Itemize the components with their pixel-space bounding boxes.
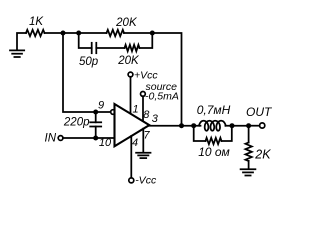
wire: feedback node C to output node <box>152 33 181 126</box>
ground (op-amp pin 7) <box>136 153 150 158</box>
node G junction (L/R rejoin) <box>230 123 235 128</box>
node C junction <box>150 31 155 36</box>
svg-text:0,7мН: 0,7мН <box>197 103 231 117</box>
op-amp U1 <box>115 104 150 146</box>
svg-text:4: 4 <box>132 137 138 149</box>
resistor 10 ohm <box>206 138 222 144</box>
svg-text:20K: 20K <box>117 55 140 67</box>
output node junction (feedback) <box>179 123 184 128</box>
svg-text:20K: 20K <box>115 17 138 29</box>
svg-text:-0,5mA: -0,5mA <box>145 90 179 102</box>
wire: source to pin 8 <box>142 96 144 120</box>
ground (top-left) <box>10 50 24 57</box>
svg-text:3: 3 <box>152 113 159 125</box>
svg-text:1: 1 <box>132 104 138 116</box>
wire: node H to OUT <box>249 125 260 127</box>
wire: ground stem to 1K left <box>17 33 26 50</box>
svg-text:10 ом: 10 ом <box>198 145 230 159</box>
capacitor 220p <box>90 112 101 138</box>
terminal +Vcc <box>128 72 133 77</box>
wire: node H down to 2K <box>248 126 250 143</box>
svg-text:7: 7 <box>144 130 151 142</box>
inductor 0.7mH <box>199 121 226 131</box>
node D junction (220p top) <box>93 110 98 115</box>
node B junction <box>76 31 81 36</box>
node A junction <box>61 31 66 36</box>
wire: 2K to ground <box>248 161 250 169</box>
svg-text:+Vcc: +Vcc <box>134 69 158 81</box>
svg-text:8: 8 <box>143 109 150 121</box>
resistor 1K <box>26 30 45 36</box>
wire: 50p to 20K bottom <box>96 47 124 49</box>
wire: 10 ohm branch <box>194 126 232 141</box>
wire: pin 4 to -Vcc <box>130 136 132 178</box>
svg-text:220p: 220p <box>63 116 90 128</box>
node E junction (220p bottom) <box>93 136 98 141</box>
svg-text:10: 10 <box>99 137 112 149</box>
wire: 20K top to node C <box>124 32 152 34</box>
resistor 20K (top) <box>107 30 125 36</box>
svg-text:-Vcc: -Vcc <box>135 174 157 186</box>
terminal OUT <box>260 123 265 128</box>
wire: node B down to 50p <box>79 33 92 48</box>
wire: +Vcc to pin 1 <box>130 77 132 114</box>
wire: IN to pin 10 <box>63 137 115 139</box>
svg-text:2K: 2K <box>254 147 271 161</box>
resistor 2K <box>245 143 251 162</box>
terminal source <box>141 92 146 97</box>
terminal IN <box>58 136 63 141</box>
ground (output 2K) <box>241 169 256 175</box>
wire: pin 7 to ground <box>142 129 144 153</box>
node H junction (2K tap) <box>246 123 251 128</box>
wire: node A down and right to pin 9 <box>63 33 110 112</box>
wire: coil end to node G <box>225 125 248 127</box>
svg-text:9: 9 <box>98 100 104 112</box>
svg-text:50p: 50p <box>79 56 99 68</box>
node F junction (L/R split) <box>191 123 196 128</box>
capacitor 50p <box>92 43 97 53</box>
svg-text:OUT: OUT <box>246 105 273 119</box>
svg-text:IN: IN <box>45 132 57 144</box>
resistor 20K (bottom) <box>125 45 140 51</box>
inverting input bubble (pin 9) <box>111 110 116 115</box>
wire: 20K bottom up to node C <box>140 34 153 48</box>
wire: 1K to node B <box>45 32 107 34</box>
svg-text:1K: 1K <box>29 16 44 28</box>
terminal -Vcc <box>129 178 134 183</box>
wire: output rail <box>149 125 200 127</box>
